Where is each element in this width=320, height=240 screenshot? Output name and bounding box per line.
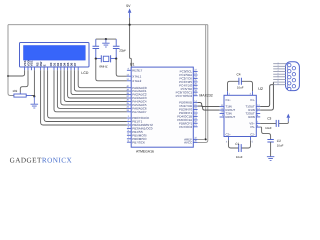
power 5V terminal — [126, 4, 131, 18]
pin U1 PC2/TCK — [180, 76, 198, 81]
wire LCD D4 to MCU — [68, 70, 127, 98]
pin U1 PD3/INT1 — [179, 110, 198, 115]
wire VS- to C2 — [260, 127, 270, 139]
pin U1 PA3/ADC3 — [126, 95, 147, 100]
pin U1 XTAL2 — [126, 78, 141, 83]
svg-text:2: 2 — [278, 64, 279, 67]
pin U1 PC0/SCL — [180, 69, 198, 74]
pin U1 PD0/RXD — [179, 100, 197, 105]
wire left 5V rail down to pot — [8, 25, 14, 96]
capacitor C6 22pF left — [93, 39, 100, 59]
ground C2 — [267, 157, 274, 161]
wire LCD VEE to pot-ground node — [33, 70, 35, 96]
svg-text:PC7/TOSC2: PC7/TOSC2 — [176, 94, 193, 98]
pin U1 PB0/T0/XCK — [127, 115, 149, 120]
svg-text:R2IN: R2IN — [248, 115, 254, 119]
svg-text:6: 6 — [278, 74, 279, 77]
IC U2 MAX232 body — [199, 87, 263, 137]
wire right rail to AVCC — [198, 25, 208, 143]
wire C4 left — [228, 81, 239, 91]
resistor RV1 10k contrast pot — [12, 89, 31, 97]
pin U1 PD5/OC1A — [177, 117, 197, 122]
pin U1 PA5/ADC5 — [126, 102, 147, 107]
svg-text:RESET: RESET — [132, 68, 142, 72]
pin U2 C1+ — [228, 91, 231, 95]
pin U1 PD7/OC2 — [179, 124, 197, 129]
pin U1 PC3/TMS — [179, 79, 197, 84]
svg-text:5V: 5V — [126, 4, 131, 8]
wire T1OUT to DB9 — [260, 85, 273, 107]
capacitor C7 22pF right — [113, 39, 120, 59]
svg-text:5: 5 — [278, 72, 279, 75]
pin U1 RESET — [127, 68, 143, 73]
wire LCD D7 to MCU — [78, 70, 127, 88]
pin U1 PA7/ADC7 — [126, 109, 147, 114]
svg-text:C1: C1 — [235, 142, 239, 146]
wire PD1 TXD to R1OUT — [198, 106, 220, 110]
svg-text:VEE: VEE — [30, 61, 34, 67]
pin U2 C2- — [251, 137, 254, 144]
pin U1 PD1/TXD — [180, 103, 198, 108]
svg-text:PA7/ADC7: PA7/ADC7 — [132, 110, 147, 114]
pin U1 PC6/TOSC1 — [176, 89, 198, 94]
capacitor C3 10uF — [265, 116, 279, 130]
pin U1 PA6/ADC6 — [126, 106, 147, 111]
svg-text:1: 1 — [278, 61, 279, 64]
wire caps top link — [96, 38, 116, 40]
pin U2 C2+ — [226, 137, 229, 144]
svg-text:22pF: 22pF — [119, 48, 126, 52]
wire LCD D6 to MCU — [74, 70, 127, 91]
pin U1 PC5/TDI — [181, 86, 198, 91]
pin U1 PC1/SDA — [179, 72, 197, 77]
node crystal right junction — [115, 58, 117, 60]
svg-text:10uF: 10uF — [236, 155, 243, 159]
wire LCD D3 to MCU — [64, 70, 127, 101]
wire 5V drop to RESET — [130, 18, 132, 71]
pin U1 AVCC — [184, 140, 198, 145]
svg-text:C4: C4 — [237, 73, 241, 77]
pin U1 PD4/OC1B — [177, 114, 197, 119]
wire PD0 RXD to T1IN — [198, 103, 220, 107]
LCD module LCD1 — [20, 43, 90, 68]
node crystal left junction — [95, 58, 97, 60]
pin U1 PA1/ADC1 — [126, 88, 147, 93]
IC U1 ATMEGA16 MCU body — [130, 63, 194, 154]
svg-text:XTAL1: XTAL1 — [132, 74, 141, 78]
wire VS+ to C3 — [260, 122, 286, 124]
node AREF junction — [205, 138, 207, 140]
pin U2 R2OUT — [220, 114, 224, 117]
wire right rail to AREF — [198, 25, 206, 140]
svg-text:GADGETRONICX: GADGETRONICX — [10, 156, 73, 164]
svg-text:PB7/SCK: PB7/SCK — [132, 140, 145, 144]
LCD pin stubs — [25, 67, 79, 70]
pin U2 VS- — [256, 124, 260, 127]
svg-text:C1+: C1+ — [226, 98, 232, 102]
svg-text:C1-: C1- — [250, 98, 255, 102]
svg-text:LCD: LCD — [81, 71, 88, 75]
wire C4 right — [241, 81, 252, 91]
pin U1 PA0/ADC0 — [126, 85, 147, 90]
svg-text:R2OUT: R2OUT — [226, 115, 236, 119]
wire C1 right — [241, 140, 250, 148]
pin U2 R1OUT — [220, 107, 224, 110]
svg-text:C2+: C2+ — [226, 132, 232, 136]
svg-text:XTAL2: XTAL2 — [132, 79, 141, 83]
pin U2 R2IN — [256, 114, 260, 117]
pin U2 T2OUT — [256, 111, 260, 114]
node pot ground junction — [33, 95, 35, 97]
node caps-ground junction — [105, 38, 107, 40]
DB9 pin stubs — [273, 61, 286, 85]
wire crystal left to XTAL2 — [96, 59, 127, 81]
pin U1 PB1/T1 — [127, 119, 143, 124]
pin U1 PC4/TDO — [179, 83, 197, 88]
svg-text:10uF: 10uF — [277, 143, 284, 147]
pin U1 PB7/SCK — [127, 139, 145, 144]
svg-text:MAX232: MAX232 — [199, 93, 212, 97]
svg-text:8: 8 — [278, 80, 279, 83]
capacitor C4 10uF — [237, 73, 244, 90]
wire 5V top rail — [8, 24, 208, 26]
wire pot right to ground node — [32, 95, 35, 98]
pin U2 C1- — [250, 91, 253, 95]
svg-text:E: E — [42, 64, 46, 66]
wire LCD D2 to MCU — [61, 70, 127, 105]
pin U1 PD2/INT0 — [179, 107, 198, 112]
svg-text:10uF: 10uF — [265, 126, 272, 130]
svg-text:C2: C2 — [277, 139, 281, 143]
pin U1 PB2/AIN0/INT2 — [127, 122, 153, 127]
svg-text:C3: C3 — [267, 116, 271, 120]
svg-text:10uF: 10uF — [237, 86, 244, 90]
pin U1 XTAL1 — [126, 73, 141, 78]
pin U2 T1IN — [220, 104, 224, 107]
pin U1 PB5/MOSI — [127, 133, 147, 138]
wire LCD VSS to left rail — [8, 70, 25, 76]
svg-text:7: 7 — [278, 77, 279, 80]
svg-text:D7: D7 — [73, 62, 77, 66]
pin U2 T1OUT — [256, 104, 260, 107]
crystal X1 6MHZ — [96, 55, 116, 68]
wire LCD E to MCU — [48, 70, 127, 118]
pin U1 AREF — [184, 137, 197, 142]
ground pot — [31, 96, 39, 108]
wire LCD RS to MCU — [41, 70, 127, 125]
svg-text:C2-: C2- — [250, 132, 255, 136]
pin U1 PC7/TOSC2 — [176, 93, 198, 98]
svg-text:10k: 10k — [12, 89, 17, 93]
node 5V rail junction — [129, 24, 131, 26]
capacitor C2 10uF — [267, 139, 283, 147]
wire crystal right to XTAL1 — [116, 59, 127, 77]
wire LCD D0 to MCU — [54, 70, 127, 112]
capacitor C1 10uF — [235, 142, 243, 159]
svg-text:U1: U1 — [130, 63, 135, 67]
wire LCD RW to MCU — [44, 70, 127, 121]
pin U1 PB6/MISO — [127, 136, 147, 141]
ground caps — [102, 39, 109, 47]
pin U2 VS+ — [256, 121, 260, 124]
wire C2 to ground — [270, 142, 272, 156]
power 5V arrow right — [287, 114, 291, 122]
svg-text:6MHZ: 6MHZ — [99, 65, 107, 69]
svg-text:VS-: VS- — [250, 125, 255, 129]
wire LCD D1 to MCU — [57, 70, 127, 108]
pin U2 T2IN — [220, 111, 224, 114]
wire LCD VDD to pot wiper — [20, 70, 28, 92]
wire LCD D5 to MCU — [71, 70, 127, 94]
pin U1 PD6/ICP1 — [179, 121, 198, 126]
svg-text:4: 4 — [278, 69, 279, 72]
node VSS rail junction — [7, 75, 9, 77]
svg-text:U2: U2 — [258, 87, 263, 91]
pin U1 PA4/ADC4 — [126, 99, 147, 104]
wire C1 left — [229, 140, 239, 148]
connector J2 DB9 — [286, 62, 300, 91]
pin U1 PB3/AIN1/OC0 — [127, 126, 153, 131]
wire R1IN to DB9 — [260, 82, 273, 110]
pin U2 R1IN — [256, 107, 260, 110]
svg-text:AVCC: AVCC — [184, 140, 193, 144]
svg-text:PD7/OC2: PD7/OC2 — [179, 125, 192, 129]
pin U1 PB4/SS — [127, 129, 143, 134]
svg-text:3: 3 — [278, 67, 279, 70]
svg-text:9: 9 — [278, 82, 279, 85]
svg-text:ATMEGA16: ATMEGA16 — [136, 149, 154, 153]
pin U1 PA2/ADC2 — [126, 92, 147, 97]
